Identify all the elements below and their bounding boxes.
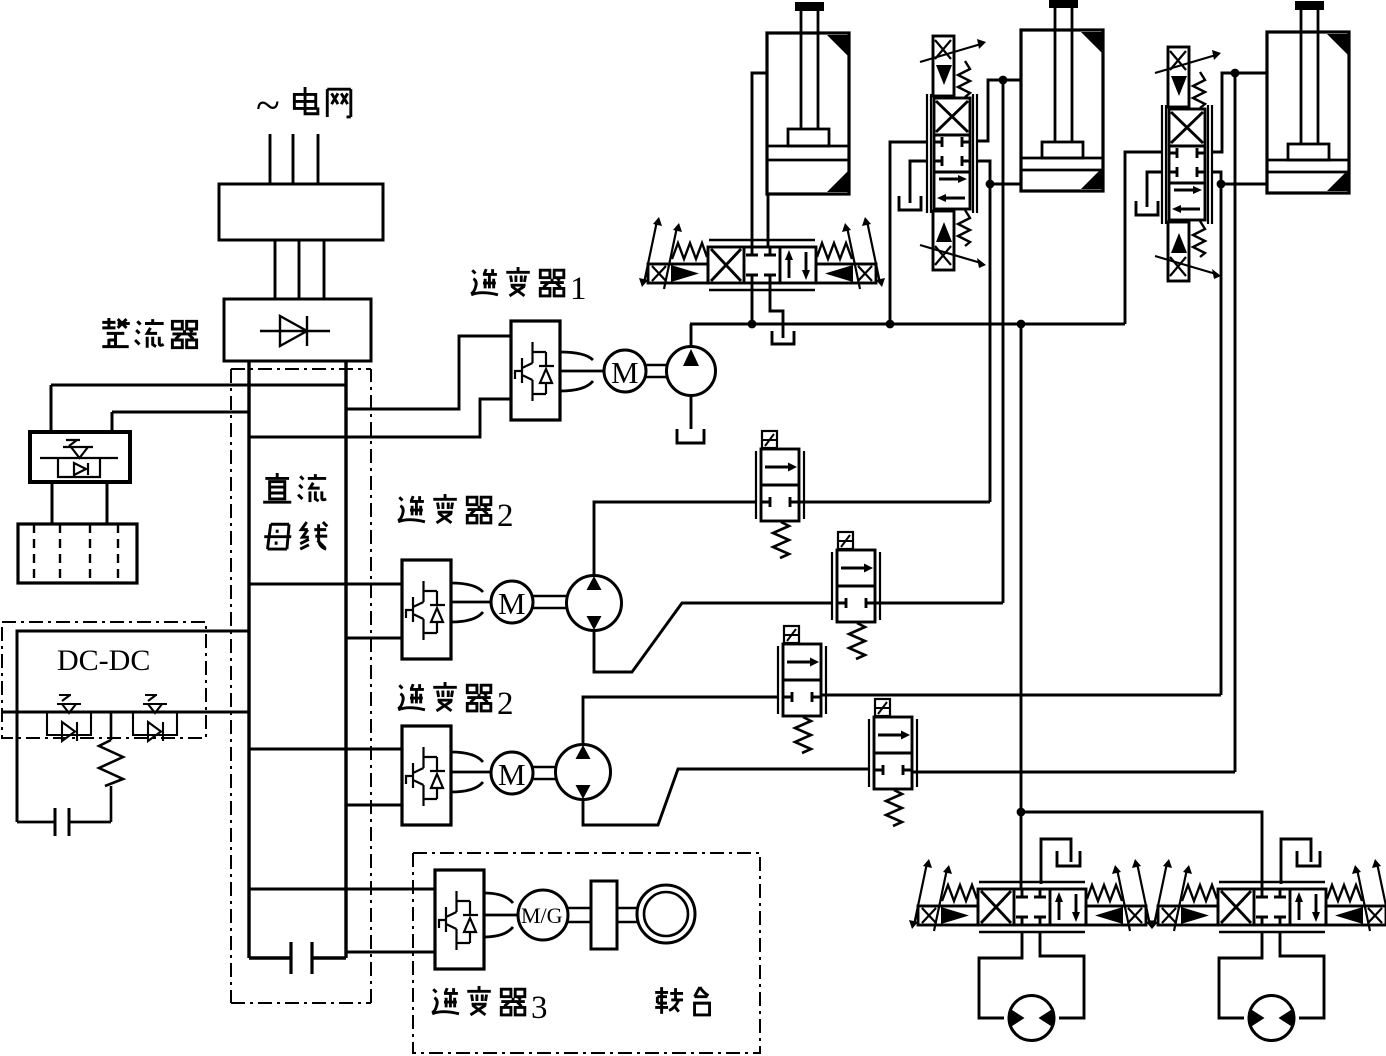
wire: bus to inverter2b lower feed [346, 804, 402, 807]
motor M1 [604, 350, 646, 392]
wire: valve B right upper port up to cyl3 rod side [1212, 73, 1267, 152]
node: cyl2 rod line tap [999, 76, 1008, 85]
wire: pump2a bottom to valve S2 [594, 603, 832, 672]
wire: pump1 suction [690, 395, 693, 429]
hydraulic motor HM2 [1249, 996, 1294, 1041]
pilot line and tank at valve C [1041, 839, 1080, 884]
svg-text:2: 2 [497, 686, 514, 722]
braking resistor bank box [18, 524, 137, 583]
wire: bus division to inverter1 lower feed [250, 399, 511, 437]
wire: pump2b bottom to valve S4 [583, 769, 869, 825]
node: cyl3 cap line tap [1217, 180, 1226, 189]
label: 逆变器1 [471, 267, 586, 307]
wire: valve S2 right line [875, 602, 1003, 605]
pump P2a [567, 576, 622, 631]
pump P1 [667, 347, 716, 396]
wire: trunk drop to bottom distribution [1020, 324, 1023, 890]
inverter U2a (IGBT box) [402, 560, 451, 659]
tank at valve A [899, 196, 921, 210]
label: 逆变器2 (second) [398, 682, 513, 722]
valve S2 [832, 532, 880, 659]
shaft M1-pump1 [646, 365, 668, 377]
wire: DC-DC top link to bus [206, 630, 249, 633]
capacitor at bus bottom [249, 956, 346, 959]
wire: cap tap to cyl3 cap port [1221, 183, 1267, 186]
inverter U1 (IGBT box) [511, 321, 560, 420]
wire: pump2a top to valve S1 [594, 502, 756, 575]
cylinder CY2 [1021, 0, 1103, 191]
shaft M2b-pump2b [533, 767, 556, 779]
wire: valve V1 P port to trunk [751, 283, 754, 324]
wire: valve S4 right line [912, 771, 1235, 774]
label: ~电网 (AC grid) [256, 81, 351, 130]
turntable (double circle) [637, 885, 695, 943]
shaft M/G to coupling [568, 908, 591, 922]
svg-text:M: M [498, 586, 526, 621]
label: 直流母线 (DC bus) [263, 473, 327, 549]
chopper resistor (zigzag) [99, 712, 123, 822]
wire: valve V1 T port to tank [770, 283, 783, 331]
wire: valve S1 right line [799, 501, 990, 504]
wire: valve S3 right line [821, 694, 1221, 697]
phantom enclosure around DC bus [231, 369, 371, 1003]
turntable phantom enclosure [413, 853, 760, 1053]
svg-text:DC-DC: DC-DC [57, 644, 150, 677]
wire: valve B left lower port to tank [1147, 172, 1162, 207]
valve D (right motor valve) [1149, 859, 1386, 932]
node: bottom distribution junction [1017, 808, 1026, 817]
DC-DC capacitor [17, 821, 111, 824]
wire: DC-DC main rail [2, 711, 249, 714]
resistor bank dashed cells [34, 524, 118, 583]
wire: valve C to motor loop left [979, 933, 1022, 1018]
node: trunk junction at valve V1 [748, 320, 757, 329]
node: cyl2 cap line tap [986, 180, 995, 189]
3-phase leads to motor M2b [451, 752, 491, 792]
inverter U3 (IGBT box) [435, 870, 484, 969]
label: 逆变器3 [432, 986, 547, 1026]
pilot line and tank at valve D [1281, 839, 1320, 884]
wire: 3-phase into rectifier [275, 240, 324, 299]
wire: pressure trunk line [690, 323, 1125, 326]
coupling block [591, 881, 617, 949]
label: 转台 (turntable) [655, 987, 709, 1015]
wire: pump2b top to valve S3 [583, 697, 778, 744]
shaft M2a-pump2a [533, 596, 567, 608]
pump P2b [556, 745, 611, 800]
wire: distribution to valve D [1021, 812, 1262, 890]
shaft coupling to turntable [617, 908, 638, 922]
rectifier box [224, 299, 371, 361]
valve C (left motor valve) [909, 859, 1155, 932]
wire: brake chopper top link [51, 384, 346, 387]
valve S4 [869, 699, 917, 826]
wire: valve A left lower port to tank [910, 161, 928, 203]
tank at valve B [1136, 201, 1158, 215]
svg-text:M: M [611, 355, 639, 390]
wire: valve D to motor loop left [1219, 933, 1262, 1018]
wire: 3-phase feed top [270, 134, 318, 184]
wire: valve B left upper port to trunk riser [1125, 152, 1162, 324]
DC-DC solid frame [17, 631, 206, 822]
node: cyl3 rod line tap [1231, 69, 1240, 78]
cylinder CY3 [1267, 1, 1349, 193]
wire: cyl1 cap side to valve V1 port B [767, 194, 770, 247]
label: 逆变器2 (first) [398, 494, 513, 534]
wire: valve D to motor loop right [1280, 933, 1324, 1018]
wire: pump1 pressure to trunk [690, 324, 693, 347]
wire: rod tap down to valve S4 [1234, 73, 1237, 772]
wire: chopper drops [51, 385, 112, 432]
motor M2b [491, 752, 533, 794]
hydraulic motor HM1 [1009, 996, 1054, 1041]
svg-text:3: 3 [531, 990, 548, 1026]
tank under valve V1 [772, 331, 794, 344]
wire: bus division to inverter2a upper feed [250, 583, 402, 586]
brake chopper box [30, 432, 130, 482]
wire: valve A left upper port to trunk [890, 142, 928, 324]
motor M2a [491, 581, 533, 623]
transformer box [219, 184, 383, 240]
wire: valve A right upper port up to cyl2 rod side [977, 80, 1021, 141]
wire: brake chopper second link [112, 411, 249, 414]
3-phase leads to motor M2a [451, 583, 491, 622]
diode symbol inside rectifier [260, 316, 330, 346]
DC-DC phantom enclosure [2, 622, 206, 738]
wire: bus right to inverter1 upper feed [346, 336, 511, 409]
node: trunk junction at motor feed drop [1017, 320, 1026, 329]
wire: chopper to resistor bank [52, 482, 107, 524]
motor/generator M/G [518, 890, 568, 940]
svg-text:1: 1 [570, 271, 587, 307]
svg-text:M: M [498, 757, 526, 792]
svg-text:M/G: M/G [521, 903, 563, 928]
valve S3 [778, 626, 826, 753]
wire: rod tap down to valve S2 [1002, 80, 1005, 603]
wire: valve B right lower port down to valve S3 [1212, 172, 1221, 695]
wire: bus to inverter2a lower feed [346, 637, 402, 640]
3-phase leads to M/G [484, 893, 518, 937]
wire: cap tap to cyl2 cap port [990, 183, 1021, 186]
wire: valve A right lower port down to valve S1 [977, 161, 990, 502]
svg-text:2: 2 [497, 498, 514, 534]
wire: bus division to inverter3 upper feed [250, 888, 435, 891]
label: 整流器 (rectifier) [102, 318, 196, 348]
svg-text:~: ~ [256, 81, 280, 130]
valve S1 [756, 431, 804, 558]
wire: bus division to inverter2b upper feed [250, 748, 402, 751]
DC-DC switch 1 (IGBT+diode) [47, 695, 91, 741]
wire: bus to inverter3 lower feed [346, 951, 435, 954]
3-phase leads to motor M1 [560, 352, 604, 391]
node: trunk junction at valve A drop [886, 320, 895, 329]
inverter U2b (IGBT box) [402, 726, 451, 825]
cylinder CY1 [767, 2, 849, 194]
DC bus rails [249, 361, 346, 958]
tank under pump1 [677, 429, 704, 443]
wire: cyl1 rod side to valve V1 port A [752, 73, 767, 247]
wire: valve C to motor loop right [1040, 933, 1084, 1018]
chopper IGBT symbol [40, 440, 118, 477]
DC-DC switch 2 (IGBT+diode) [133, 695, 177, 741]
